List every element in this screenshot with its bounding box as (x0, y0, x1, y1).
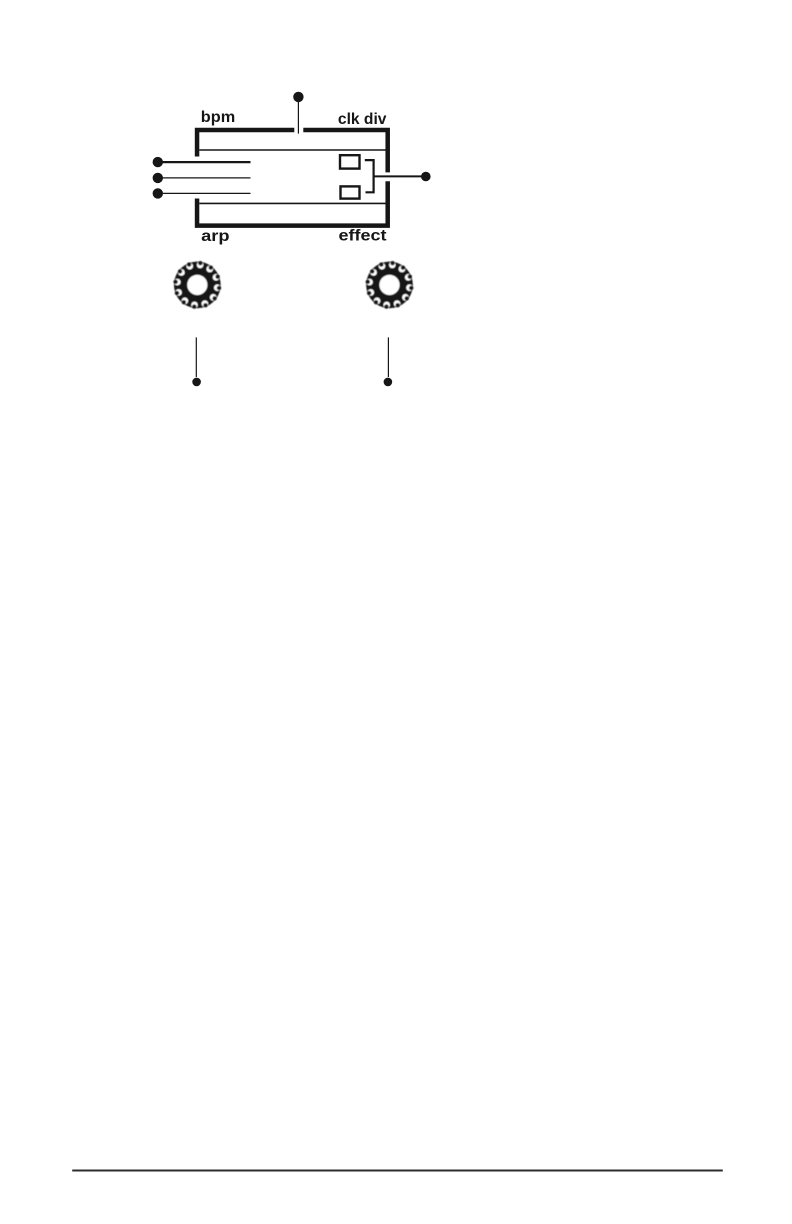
svg-text:clk div: clk div (338, 111, 387, 128)
wire input 1 (158, 161, 251, 163)
svg-text:bpm: bpm (201, 109, 235, 126)
input dot 1 (153, 157, 163, 167)
dot below knob arp (192, 378, 201, 387)
wire output (374, 175, 426, 177)
svg-text:effect: effect (339, 228, 387, 245)
inner panel bottom line (199, 202, 385, 204)
input dot 3 (153, 188, 163, 198)
footer rule (72, 1169, 723, 1171)
svg-text:arp: arp (201, 228, 229, 245)
clock input dot (top) (293, 92, 303, 102)
input dot 2 (153, 173, 163, 183)
inner panel top line (199, 149, 385, 151)
module outline top-right segment (303, 130, 387, 172)
knob arp (173, 261, 221, 309)
wire below knob effect (387, 337, 389, 377)
wire below knob arp (195, 337, 197, 377)
wire input 2 (158, 177, 251, 179)
module outline top-left segment (197, 130, 294, 157)
switch square S2 (341, 186, 360, 198)
switch square S1 (340, 155, 360, 168)
output dot (421, 172, 431, 182)
bracket joining S1 and S2 (365, 160, 374, 192)
wire clock to module (297, 101, 299, 134)
dot below knob effect (384, 378, 393, 387)
knob effect (366, 261, 414, 309)
module outline bottom segment (197, 181, 388, 225)
wire input 3 (158, 192, 251, 194)
